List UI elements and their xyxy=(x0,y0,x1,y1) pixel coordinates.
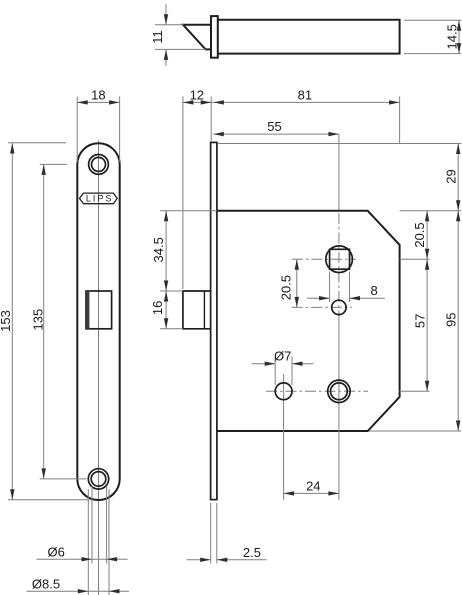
svg-text:Ø8.5: Ø8.5 xyxy=(32,576,60,591)
svg-text:34.5: 34.5 xyxy=(151,237,166,262)
lower holes centerline horizontal xyxy=(266,390,430,392)
fixing hole diameter 7 xyxy=(275,383,292,400)
extension line faceplate top xyxy=(218,143,461,145)
faceplate cross-section (top view) xyxy=(211,16,218,58)
svg-text:29: 29 xyxy=(444,169,459,183)
dimension 2.5 (faceplate thickness) xyxy=(187,503,267,564)
LIPS logo xyxy=(80,193,118,204)
follower centerline vertical xyxy=(338,134,340,500)
svg-text:20.5: 20.5 xyxy=(412,222,427,247)
dimension 153 (faceplate length) xyxy=(0,143,88,500)
follower hole with square xyxy=(326,246,353,273)
svg-text:Ø6: Ø6 xyxy=(48,544,65,559)
svg-text:18: 18 xyxy=(91,87,105,102)
dimension 81 (case depth) xyxy=(213,88,399,144)
dimension 135 (screw hole spacing) xyxy=(30,164,86,479)
follower centerline horizontal xyxy=(292,258,430,260)
bottom screw hole xyxy=(88,469,108,489)
projection lines diameter 6 xyxy=(92,486,107,564)
latch bolt (side view) xyxy=(183,291,211,329)
dimension 18 (faceplate width) xyxy=(77,87,119,162)
svg-text:8: 8 xyxy=(370,283,377,298)
svg-text:55: 55 xyxy=(267,119,281,134)
lock case outline xyxy=(217,211,400,431)
faceplate outline (front view) xyxy=(77,143,119,500)
svg-text:16: 16 xyxy=(150,301,165,315)
fixing hole centerline vertical xyxy=(283,374,285,500)
svg-text:24: 24 xyxy=(306,479,320,494)
dimension diameter 8.5 xyxy=(27,576,130,593)
svg-text:12: 12 xyxy=(190,87,204,102)
svg-text:153: 153 xyxy=(0,310,13,332)
dimension 16 (latch height) xyxy=(150,291,183,329)
svg-text:135: 135 xyxy=(30,309,45,331)
dimension diameter 6 xyxy=(37,544,128,561)
latch bolt bevelled head (top view) xyxy=(183,25,211,50)
spindle hole xyxy=(332,300,346,314)
dimension 34.5 (case top to latch) xyxy=(151,211,217,291)
dimension 12 (latch projection) xyxy=(183,87,400,289)
dimension 8 (follower square) xyxy=(307,272,385,303)
svg-text:95: 95 xyxy=(443,313,458,327)
extension line case bottom xyxy=(369,430,461,432)
svg-text:14.5: 14.5 xyxy=(444,24,459,49)
faceplate cross-section (side view) xyxy=(211,142,217,499)
latch opening in faceplate xyxy=(86,291,112,329)
dimension 11 (latch head width) xyxy=(150,4,206,66)
svg-text:81: 81 xyxy=(298,88,312,103)
dimension 24 (lower holes spacing) xyxy=(284,479,339,496)
svg-text:57: 57 xyxy=(412,314,427,328)
dimension 55 (backset) xyxy=(213,119,339,136)
svg-text:LIPS: LIPS xyxy=(86,194,114,204)
dimension diameter 7 xyxy=(252,349,314,386)
lower follower hole xyxy=(328,380,350,402)
dimension 20.5 left (follower to spindle hole) xyxy=(279,259,299,307)
dimension 29 (faceplate top to case top) xyxy=(444,144,461,211)
svg-text:Ø7: Ø7 xyxy=(274,349,291,364)
dimension 95 (case height) xyxy=(443,211,460,431)
svg-text:20.5: 20.5 xyxy=(279,275,294,300)
faceplate centerline xyxy=(98,141,100,595)
svg-text:11: 11 xyxy=(150,30,165,44)
projection lines diameter 8.5 xyxy=(88,489,109,595)
dimension 14.5 (latch bolt height) xyxy=(404,20,461,53)
dimension 20.5 right (case top to follower) xyxy=(412,211,429,259)
extension line case top xyxy=(400,210,462,212)
spindle hole centerline horizontal xyxy=(292,306,352,308)
dimension 57 (follower to lower hole) xyxy=(412,259,429,391)
svg-text:2.5: 2.5 xyxy=(243,545,261,560)
top screw hole xyxy=(89,155,109,175)
latch bolt body (top view) xyxy=(218,20,400,54)
